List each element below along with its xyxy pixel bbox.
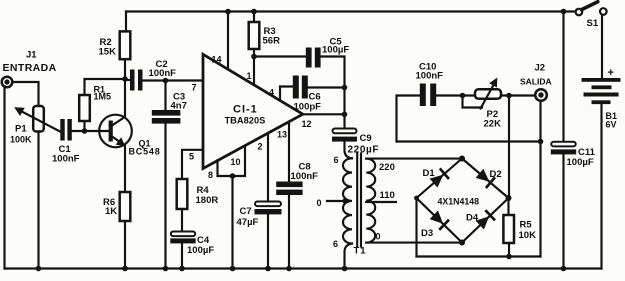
wire battery negative to ground rail: [600, 104, 602, 268]
wire pins 8,10 to ground rail: [230, 176, 236, 271]
transformer T1 primary winding: [343, 158, 352, 243]
switch S1: [576, 2, 607, 16]
label D1: [423, 168, 436, 179]
top supply rail: [126, 10, 575, 12]
svg-text:D4: D4: [466, 213, 479, 224]
svg-text:22K: 22K: [484, 119, 502, 130]
wire R3 bottom to pin 1, node to C5: [251, 49, 257, 85]
wire C1 to Q1 base, node at R1 bottom: [72, 128, 109, 134]
wire pin 5 to R4 top: [182, 150, 202, 179]
capacitor C4 electrolytic: [170, 232, 195, 244]
diode bridge frame: [414, 156, 511, 246]
label 10K (R5): [519, 230, 537, 241]
svg-text:100µF: 100µF: [187, 245, 214, 256]
resistor R2: [120, 31, 131, 59]
wire C10 to P2 left terminal: [436, 93, 475, 99]
label 100nF (C1): [52, 154, 80, 165]
label C2: [156, 59, 168, 70]
wire C4 bottom to ground rail: [179, 243, 185, 271]
label S1: [587, 18, 599, 29]
wire C5 right plate to bootstrap column: [321, 57, 345, 129]
resistor R4: [177, 179, 188, 209]
svg-text:10: 10: [231, 157, 241, 167]
wire C9 bottom to T1 primary top: [345, 142, 353, 159]
svg-text:D1: D1: [423, 168, 436, 179]
wire pin 14 from supply rail: [225, 9, 231, 69]
wire pin 13 down to C8: [288, 122, 290, 182]
label C1: [59, 144, 72, 155]
label + (battery positive): [608, 67, 614, 79]
label 100uF (C4): [187, 245, 214, 256]
label 1M5 (R1): [94, 92, 112, 102]
potentiometer P1: [33, 106, 44, 132]
label C3: [173, 92, 185, 103]
ground rail (bottom): [5, 267, 602, 269]
label C5: [330, 37, 343, 48]
wire C7 bottom to ground rail: [265, 215, 271, 272]
label 15K (R2): [99, 47, 117, 58]
svg-text:+: +: [608, 67, 614, 79]
resistor R6: [120, 192, 131, 221]
svg-text:100nF: 100nF: [52, 154, 80, 165]
capacitor C8: [276, 182, 302, 196]
wire C11 column from supply rail: [561, 9, 567, 142]
label 4X1N4148: [438, 197, 480, 207]
capacitor C11 electrolytic: [551, 142, 576, 155]
wire C8 bottom to ground rail: [286, 195, 292, 271]
capacitor C3: [152, 81, 181, 124]
pin number 1: [247, 71, 252, 81]
wire J2 sleeve down to return line: [539, 101, 541, 256]
wire node to C5 left plate: [254, 55, 306, 57]
svg-text:ENTRADA: ENTRADA: [3, 62, 57, 74]
P2 wiper arrow: [481, 78, 498, 109]
connector J2: [535, 89, 547, 101]
potentiometer P2: [475, 89, 501, 99]
svg-text:D2: D2: [490, 169, 502, 180]
transformer T1 secondary winding: [366, 159, 375, 243]
capacitor C9 electrolytic: [332, 129, 357, 142]
svg-text:1: 1: [247, 71, 252, 81]
svg-text:C9: C9: [360, 133, 372, 144]
svg-text:10K: 10K: [519, 230, 537, 241]
label 180R (R4): [196, 195, 219, 206]
diode D3: [429, 210, 450, 231]
diode D1: [429, 168, 450, 189]
svg-text:8: 8: [208, 170, 213, 180]
svg-text:100K: 100K: [10, 135, 32, 145]
svg-text:2: 2: [258, 142, 263, 152]
svg-text:220µF: 220µF: [348, 145, 380, 156]
svg-text:56R: 56R: [263, 36, 281, 47]
svg-text:180R: 180R: [196, 195, 219, 206]
capacitor C7 electrolytic: [255, 202, 282, 215]
svg-text:0: 0: [317, 198, 322, 208]
label 6 (T1 primary bottom): [333, 239, 338, 249]
label C7: [240, 206, 252, 217]
T1 core: [357, 154, 361, 247]
label 100uF (C11): [567, 157, 594, 168]
svg-text:1M5: 1M5: [94, 92, 112, 102]
label R6: [103, 197, 115, 208]
label J1: [26, 50, 37, 61]
wire P1 bottom to ground rail: [36, 132, 42, 272]
svg-text:6: 6: [333, 239, 338, 249]
wire R4 bottom to C4: [181, 209, 183, 231]
wire R2 bottom to collector node: [122, 59, 128, 82]
wire P2 right to J2, node from bridge: [501, 93, 536, 99]
svg-text:J2: J2: [535, 63, 546, 74]
label R2: [100, 37, 112, 48]
svg-text:100nF: 100nF: [149, 68, 177, 79]
wire C11 bottom to ground rail: [561, 154, 567, 271]
svg-text:100µF: 100µF: [322, 45, 349, 56]
wire T1 secondary 220 tap to bridge top, label 220: [366, 159, 462, 173]
pin number 8: [208, 170, 213, 180]
wire pin 4 to C6: [280, 87, 293, 100]
wire R1 bottom to base node: [83, 121, 85, 129]
label 4n7 (C3): [171, 101, 187, 112]
wire C3 bottom to ground rail: [163, 124, 169, 272]
svg-text:0: 0: [376, 232, 381, 242]
svg-text:C7: C7: [240, 206, 252, 217]
wire C6 right plate to column, junction: [308, 85, 348, 91]
label D2: [490, 169, 502, 180]
svg-text:4: 4: [269, 88, 274, 98]
label 100nF (C2): [149, 68, 177, 79]
wire T1 primary centre tap stub, label 0: [317, 198, 349, 208]
label P2: [487, 109, 499, 120]
label C4: [197, 235, 210, 246]
wire R3 top from supply rail: [251, 9, 257, 22]
label SALIDA: [520, 77, 552, 87]
wire R1 top to collector node: [85, 79, 126, 95]
svg-text:SALIDA: SALIDA: [520, 77, 552, 87]
capacitor C1: [60, 119, 72, 141]
label P1: [15, 124, 27, 135]
svg-text:P1: P1: [15, 124, 27, 135]
wire C10 branch from return loop: [397, 96, 421, 142]
label C10: [419, 62, 436, 73]
wire R6 bottom to ground rail: [122, 221, 128, 271]
pin number 13: [277, 130, 287, 140]
wire pin 2 down to C7: [267, 133, 269, 201]
label 100pF (C6): [294, 102, 322, 113]
label 220uF (C9): [348, 145, 380, 156]
connector J1: [2, 77, 13, 88]
svg-text:7: 7: [192, 83, 197, 93]
svg-text:4n7: 4n7: [171, 101, 187, 112]
wire return line to J2 column, R5 bottom node: [417, 254, 541, 260]
pin number 2: [258, 142, 263, 152]
svg-text:220: 220: [379, 162, 395, 173]
diode D2: [475, 168, 496, 189]
svg-text:100nF: 100nF: [416, 71, 444, 82]
label R4: [197, 185, 210, 196]
svg-text:T1: T1: [354, 246, 367, 257]
label 100uF (C5): [322, 45, 349, 56]
pin number 12: [302, 119, 312, 129]
svg-text:110: 110: [380, 190, 395, 201]
label Q1: [139, 139, 151, 149]
capacitor C5: [306, 48, 321, 68]
label C11: [578, 147, 596, 158]
svg-text:15K: 15K: [99, 47, 117, 58]
label C9: [360, 133, 372, 144]
svg-text:4X1N4148: 4X1N4148: [438, 197, 480, 207]
wire pin 12 output to column, junction: [303, 112, 348, 118]
wire S1 to battery positive: [601, 15, 603, 78]
label D4: [466, 213, 479, 224]
label C8: [299, 162, 311, 173]
label R5: [520, 220, 533, 231]
wire R2 top to supply rail: [125, 12, 127, 32]
label B1: [606, 111, 618, 121]
svg-text:100pF: 100pF: [294, 102, 322, 113]
P2 wiper tie to left terminal: [463, 96, 483, 108]
capacitor C10: [420, 84, 436, 107]
label ENTRADA: [3, 62, 57, 74]
label D3: [421, 228, 433, 239]
capacitor C6: [293, 76, 308, 99]
pin number 5: [189, 152, 194, 162]
label 6 (T1 primary top): [334, 155, 339, 165]
label CI-1: [233, 104, 258, 116]
resistor R5: [503, 215, 514, 243]
resistor R1: [79, 95, 90, 121]
svg-text:100µF: 100µF: [567, 157, 594, 168]
svg-text:D3: D3: [421, 228, 433, 239]
svg-text:6V: 6V: [606, 120, 617, 130]
wire J1 ground down-lead: [3, 87, 5, 269]
wire return loop line to J2 column: [397, 139, 544, 145]
label 100nF (C8): [291, 171, 319, 182]
label 6V (B1): [606, 120, 617, 130]
label T1: [354, 246, 367, 257]
svg-text:12: 12: [302, 119, 312, 129]
label R3: [264, 26, 276, 37]
label 47uF (C7): [237, 217, 259, 228]
wire bridge right vertex up to output node: [507, 96, 510, 216]
svg-text:47µF: 47µF: [237, 217, 259, 228]
transistor Q1: [99, 79, 132, 192]
capacitor C2: [130, 70, 143, 91]
wire bridge left vertex down to return line: [415, 198, 417, 257]
wire collector node to C2: [125, 79, 130, 81]
svg-text:14: 14: [212, 55, 222, 65]
svg-text:1K: 1K: [105, 206, 117, 217]
svg-text:S1: S1: [587, 18, 599, 29]
diode D4: [475, 209, 496, 230]
label 100K (P1): [10, 135, 32, 145]
resistor R3: [249, 22, 260, 49]
label R1: [94, 85, 106, 95]
label BC548 (Q1): [129, 147, 161, 157]
pin number 14: [212, 55, 222, 65]
label 100nF (C10): [416, 71, 444, 82]
label J2: [535, 63, 546, 74]
label 22K (P2): [484, 119, 502, 130]
wire T1 primary bottom to ground rail: [342, 244, 352, 272]
pin number 7: [192, 83, 197, 93]
pin number 4: [269, 88, 274, 98]
wire C2 to pin 7, node to C3: [143, 78, 203, 84]
battery B1: [582, 78, 621, 104]
label TBA820S: [225, 116, 266, 126]
label 56R (R3): [263, 36, 281, 47]
svg-text:100nF: 100nF: [291, 171, 319, 182]
wire J1 to P1 top: [12, 82, 38, 106]
label 1K (R6): [105, 206, 117, 217]
svg-text:13: 13: [277, 130, 287, 140]
svg-text:R5: R5: [520, 220, 533, 231]
wire R5 bottom to return line: [508, 243, 510, 257]
svg-text:CI-1: CI-1: [233, 104, 258, 116]
op-amp U1 CI-1 TBA820S triangle: [203, 54, 303, 168]
wire T1 secondary 110 tap stub, label 110: [366, 190, 396, 202]
P1 wiper arrow: [14, 107, 60, 131]
label C6: [309, 92, 321, 103]
pin number 10: [231, 157, 241, 167]
svg-text:BC548: BC548: [129, 147, 161, 157]
svg-text:6: 6: [334, 155, 339, 165]
wire T1 secondary 0 tap to bridge bottom, label 0: [366, 232, 462, 243]
svg-text:TBA820S: TBA820S: [225, 116, 266, 126]
svg-text:J1: J1: [26, 50, 37, 61]
pin 8 and pin 10 ground box: [218, 146, 246, 179]
svg-text:5: 5: [189, 152, 194, 162]
